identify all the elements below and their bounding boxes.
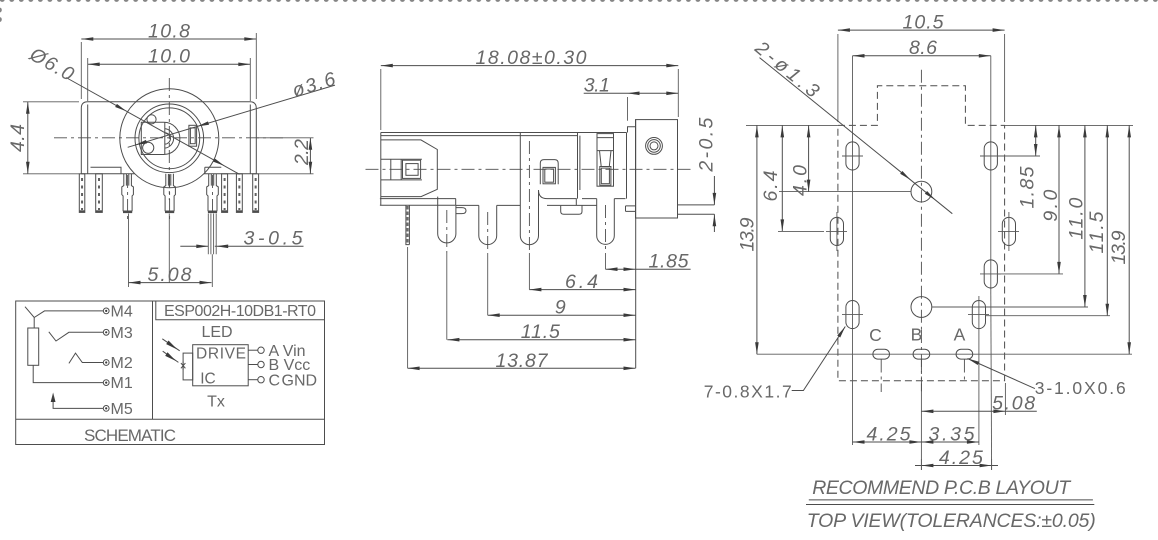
- svg-text:3-0.5: 3-0.5: [244, 228, 303, 250]
- svg-text:11.5: 11.5: [1086, 211, 1108, 253]
- leader diameter 6.0: [25, 43, 239, 174]
- svg-text:M4: M4: [111, 304, 133, 321]
- pin extension lines: [408, 247, 606, 368]
- centerline horizontal: [54, 137, 283, 139]
- pad column dashes below: [881, 360, 964, 393]
- flange plate: [636, 120, 678, 218]
- dimension 4.4: [7, 102, 79, 174]
- schematic divider horizontal: [16, 418, 325, 420]
- svg-text:5.08: 5.08: [992, 393, 1035, 415]
- terminal M1: [103, 375, 133, 392]
- wire M5 with arrow: [53, 399, 103, 409]
- oval pad 3: [826, 212, 847, 251]
- drive IC box U1: [193, 345, 249, 386]
- svg-text:2-0.5: 2-0.5: [695, 117, 717, 172]
- border dot row (top edge): [0, 0, 1158, 4]
- svg-text:2-ø1.3: 2-ø1.3: [750, 36, 824, 102]
- base plate: [380, 199, 456, 206]
- pin 4 tall: [520, 133, 538, 245]
- svg-text:DRIVE: DRIVE: [196, 346, 246, 363]
- wire M1: [33, 365, 103, 382]
- pin 2: [438, 197, 456, 243]
- pad A: [954, 325, 973, 360]
- pin E (wide with barb): [207, 174, 219, 214]
- dimension 6.4: [529, 271, 635, 293]
- svg-text:B: B: [911, 325, 923, 345]
- svg-text:C: C: [269, 372, 281, 389]
- svg-text:RECOMMEND P.C.B LAYOUT: RECOMMEND P.C.B LAYOUT: [812, 477, 1072, 499]
- svg-text:C: C: [869, 325, 882, 345]
- svg-text:3.1: 3.1: [584, 75, 610, 97]
- dimension 11.0 right: [1066, 125, 1088, 307]
- dimension 11.5: [447, 321, 635, 343]
- dimension 5.08: [921, 383, 1036, 415]
- dimension 18.08±0.30: [381, 47, 679, 130]
- dimension 4.25 left: [853, 423, 922, 445]
- oval pad 5: [980, 260, 1001, 288]
- socket inner box: [403, 160, 421, 178]
- dimension 5.08: [129, 264, 212, 286]
- pin G: [236, 174, 242, 213]
- top ext line right: [1005, 124, 1133, 126]
- svg-text:M5: M5: [111, 401, 133, 418]
- svg-text:TOP VIEW(TOLERANCES:±0.05): TOP VIEW(TOLERANCES:±0.05): [807, 510, 1096, 532]
- pin tip arc inner: [165, 133, 171, 144]
- terminal M2: [103, 355, 133, 372]
- oval pad 2: [980, 142, 1001, 170]
- shoulder step right: [205, 167, 222, 174]
- channel box A inner: [543, 167, 555, 183]
- pin A: [79, 174, 85, 213]
- dimension 13.9 left: [736, 125, 758, 354]
- dimension 2.2: [257, 138, 314, 174]
- contact hole upper-left: [147, 115, 156, 124]
- pin tip arc outer: [165, 129, 174, 149]
- pin F: [222, 174, 228, 213]
- dimension 4.25 bottom: [915, 447, 998, 470]
- body inner side wall right: [249, 105, 251, 174]
- center column line: [920, 70, 922, 330]
- dimension 9: [488, 297, 636, 319]
- dimension 6.4 left: [760, 125, 824, 231]
- pin 5: [597, 199, 615, 245]
- svg-text:LED: LED: [201, 324, 232, 341]
- svg-text:9.0: 9.0: [1040, 189, 1062, 221]
- dimension 1.85: [606, 251, 691, 273]
- rear solder pin horizontal: [678, 205, 715, 214]
- svg-text:3.35: 3.35: [929, 423, 975, 445]
- pad column line left: [852, 56, 854, 334]
- pin A wire: [248, 343, 305, 360]
- pin C extension line: [128, 214, 130, 288]
- body inner side wall left: [87, 105, 89, 174]
- top tab near flange: [628, 127, 636, 133]
- rear foot tab: [561, 205, 597, 214]
- oval pad 4: [998, 212, 1019, 251]
- mount hole 2: [911, 297, 1088, 318]
- svg-text:M3: M3: [111, 325, 133, 342]
- LED emission arrow 2: [163, 351, 179, 362]
- dimension 13.87: [408, 350, 636, 372]
- svg-text:8.6: 8.6: [909, 37, 937, 59]
- front block: [381, 140, 438, 197]
- channel box B inner: [600, 167, 611, 186]
- top ext line left: [746, 124, 838, 126]
- pin C wire: [248, 372, 317, 389]
- pad B: [911, 325, 930, 360]
- channel box A: [540, 160, 558, 185]
- svg-text:18.08±0.30: 18.08±0.30: [476, 47, 587, 69]
- svg-text:13.87: 13.87: [496, 350, 549, 372]
- oval pad 1: [842, 142, 863, 170]
- svg-text:6.4: 6.4: [565, 271, 598, 293]
- svg-text:6.4: 6.4: [760, 170, 782, 201]
- border dot (left edge): [0, 8, 2, 13]
- svg-text:2.2: 2.2: [291, 139, 313, 166]
- svg-text:SCHEMATIC: SCHEMATIC: [84, 426, 176, 445]
- dimension 13.9 right: [1108, 125, 1131, 354]
- pin H: [253, 174, 259, 213]
- channel box B: [597, 134, 614, 187]
- svg-text:10.8: 10.8: [148, 20, 190, 42]
- svg-text:9: 9: [555, 297, 566, 319]
- footprint outline dashed: [838, 86, 1005, 381]
- dimension 2-0.5: [695, 117, 717, 232]
- pad column line right: [990, 56, 992, 292]
- pin B wire: [248, 357, 310, 374]
- svg-text:11.5: 11.5: [521, 321, 560, 343]
- body bottom edge: [81, 173, 256, 175]
- flange extension line: [635, 120, 637, 369]
- body left edge: [380, 133, 382, 206]
- svg-text:13.9: 13.9: [1108, 230, 1130, 264]
- wire M4 with tip contact: [25, 307, 103, 328]
- svg-text:M2: M2: [111, 355, 133, 372]
- side contact box: [189, 125, 197, 146]
- oval pad 6: [842, 301, 863, 329]
- svg-text:3-1.0X0.6: 3-1.0X0.6: [1035, 378, 1126, 398]
- LED emission arrow 1: [162, 339, 179, 351]
- title cell border: [156, 301, 325, 320]
- dimension 11.5 right: [986, 125, 1111, 315]
- svg-text:13.9: 13.9: [736, 217, 758, 251]
- svg-text:4.25: 4.25: [939, 447, 983, 469]
- dimension 3.1: [584, 75, 679, 121]
- terminal M4: [103, 304, 133, 321]
- leader 2-ø1.3: [750, 36, 952, 213]
- svg-text:4.25: 4.25: [867, 423, 911, 445]
- svg-text:GND: GND: [282, 372, 318, 389]
- svg-text:1.85: 1.85: [1017, 166, 1039, 208]
- dimension 9.0 right: [997, 125, 1063, 274]
- pin centerlines: [447, 141, 606, 253]
- row line A/B/C: [757, 353, 1132, 355]
- dimension 4.0 left: [789, 125, 811, 196]
- bezel outer circle: [120, 89, 219, 188]
- dimension 8.6: [853, 37, 991, 59]
- oval pad 7: [968, 296, 989, 445]
- dimension 1.85 right: [997, 125, 1040, 208]
- svg-text:4.4: 4.4: [7, 124, 29, 152]
- svg-text:ø3.6: ø3.6: [290, 68, 339, 102]
- ring inner circle: [139, 108, 200, 169]
- dimension 3.35: [921, 423, 979, 445]
- dimension 3-0.5: [180, 228, 303, 250]
- schematic outer box: [16, 301, 325, 445]
- dimension 10.0: [88, 46, 251, 101]
- LED diode package: [183, 353, 193, 380]
- connector body J1 front outline: [81, 102, 256, 174]
- svg-text:11.0: 11.0: [1066, 197, 1088, 239]
- centerline vertical: [168, 78, 170, 200]
- sleeve resistor element: [28, 328, 39, 365]
- leader 7-0.8X1.7: [704, 326, 847, 402]
- pin C (wide with barb): [122, 174, 134, 220]
- pin 1 thin: [406, 205, 410, 244]
- pin D extension line: [168, 214, 170, 283]
- body top edge: [381, 133, 627, 136]
- plug inner vertical: [164, 122, 166, 154]
- shoulder step left: [91, 167, 122, 174]
- socket inner box 2: [406, 164, 418, 176]
- svg-text:Ø6.0: Ø6.0: [25, 43, 78, 86]
- contact hole lower-left: [143, 142, 154, 153]
- pin 3: [479, 205, 497, 244]
- wire M3 with contact: [49, 332, 104, 341]
- leader diameter 3.6: [128, 68, 339, 147]
- dimension 10.5: [838, 11, 1005, 122]
- dimension 10.8: [81, 20, 256, 99]
- rear pin step left of flange: [626, 206, 636, 212]
- rear bracket bottom: [539, 190, 577, 205]
- center plug outline: [141, 122, 180, 154]
- ring outer circle: [135, 104, 204, 173]
- rivet circles: [646, 138, 663, 155]
- leader 3-1.0X0.6: [967, 357, 1126, 398]
- back block right edge: [626, 133, 628, 199]
- back block corner: [578, 133, 580, 199]
- svg-text:7-0.8X1.7: 7-0.8X1.7: [704, 382, 792, 402]
- svg-text:ESP002H-10DB1-RT0: ESP002H-10DB1-RT0: [164, 303, 316, 320]
- pin B: [96, 174, 103, 213]
- svg-text:1.85: 1.85: [649, 251, 689, 273]
- svg-text:IC: IC: [200, 370, 216, 387]
- svg-text:5.08: 5.08: [148, 264, 192, 286]
- svg-text:10.0: 10.0: [148, 46, 190, 68]
- LED diode chip mark: [181, 362, 186, 370]
- pin E extension lines: [208, 214, 216, 288]
- svg-text:4.0: 4.0: [789, 165, 811, 196]
- pad C: [869, 325, 889, 359]
- terminal M3: [103, 325, 133, 342]
- front block socket lines: [381, 159, 422, 180]
- svg-text:Tx: Tx: [207, 394, 225, 411]
- horizontal centerline: [366, 168, 693, 170]
- pin D (center wide with barb): [164, 174, 176, 220]
- side contact box inner: [190, 128, 195, 144]
- svg-text:M1: M1: [111, 375, 133, 392]
- rear lower edge: [582, 198, 626, 200]
- title underline double: [806, 500, 1094, 505]
- body bottom mid edge: [456, 204, 520, 206]
- svg-text:A: A: [954, 325, 966, 345]
- svg-text:10.5: 10.5: [903, 11, 944, 33]
- pin 2 hook: [456, 208, 466, 214]
- mount hole 1: [779, 181, 932, 202]
- wire M2 with bump contact: [69, 353, 103, 363]
- schematic divider vertical: [152, 301, 154, 419]
- terminal M5: [103, 401, 133, 418]
